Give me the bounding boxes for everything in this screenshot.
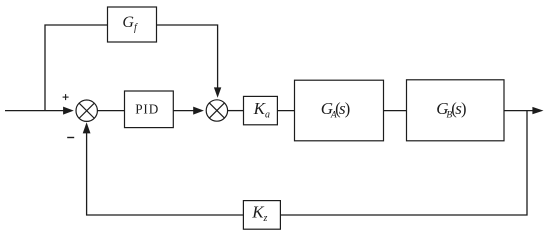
arrowhead output bbox=[532, 107, 543, 114]
summing junction S1 bbox=[76, 100, 97, 121]
block PID bbox=[125, 91, 174, 128]
block GA bbox=[295, 80, 384, 141]
arrowhead into S1 bbox=[63, 107, 74, 115]
wire output bbox=[504, 110, 533, 112]
wire feedforward branch up bbox=[45, 25, 108, 111]
node output tap / wire feedback down bbox=[280, 111, 527, 215]
wire Ka to GA bbox=[277, 110, 294, 112]
wire input bbox=[5, 110, 64, 112]
wire S1 to PID bbox=[97, 110, 124, 112]
wire GA to GB bbox=[384, 110, 407, 112]
wire Gf to sum2 bbox=[157, 25, 218, 88]
plus sign bbox=[63, 94, 69, 100]
wire S2 to Ka bbox=[228, 110, 244, 112]
arrowhead down into S2 bbox=[214, 87, 221, 97]
block Gf bbox=[108, 7, 157, 42]
svg-text:): ) bbox=[461, 99, 467, 118]
block Ks bbox=[243, 201, 280, 230]
label GB(s) bbox=[436, 99, 466, 120]
summing junction S2 bbox=[206, 100, 227, 121]
svg-text:): ) bbox=[345, 99, 351, 118]
block GB bbox=[407, 80, 505, 141]
minus sign bbox=[67, 137, 74, 139]
wire PID to S2 bbox=[173, 110, 194, 112]
arrowhead feedback up into S1 bbox=[83, 122, 91, 133]
svg-text:PID: PID bbox=[135, 102, 159, 117]
block Ka bbox=[244, 96, 278, 124]
label GA(s) bbox=[321, 99, 351, 120]
wire feedback left and up to S1 bbox=[87, 133, 244, 215]
arrowhead PID into S2 bbox=[193, 107, 204, 115]
